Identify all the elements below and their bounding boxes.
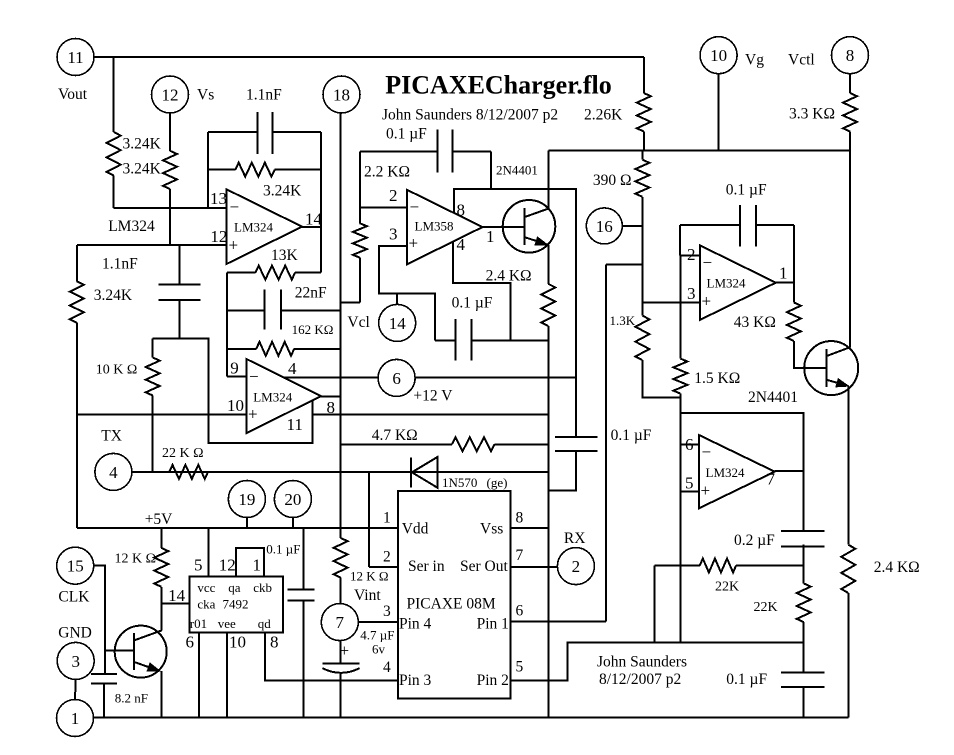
node 10 Vg [700,37,737,74]
svg-text:12: 12 [219,556,236,575]
node 2 RX [557,548,594,585]
svg-text:8/12/2007 p2: 8/12/2007 p2 [599,671,681,688]
svg-text:TX: TX [101,428,122,445]
wire pin5 rail down [679,445,681,643]
wire 22K tap [654,566,656,643]
node 16 [586,208,622,244]
svg-text:1: 1 [71,709,80,728]
svg-text:6: 6 [516,603,524,620]
svg-text:LM358: LM358 [415,219,454,234]
wire pin12 input [77,244,227,246]
svg-text:+12 V: +12 V [413,388,453,405]
svg-text:11: 11 [67,48,83,67]
wire 548 vertical to ground rail [547,340,549,717]
wire Vss pin8 [511,527,549,529]
svg-text:Vint: Vint [354,587,381,604]
wire U1B output [776,282,794,284]
svg-text:r01: r01 [190,616,207,631]
wire node14 stub [396,293,398,304]
node 4 TX [95,453,132,490]
svg-text:(ge): (ge) [487,475,508,490]
wire 642 vertical [641,226,643,316]
capacitor C5 0.1uF U1B feedback [680,224,740,226]
svg-text:+: + [409,234,419,253]
IC U3 7492 box [189,577,283,633]
resistor R5 13K [227,272,255,274]
transistor Q3 2N4401 [115,626,167,678]
wire pin3 U1B [642,302,699,304]
node 18 [323,76,360,113]
svg-text:7: 7 [767,470,776,489]
svg-text:Ser in: Ser in [408,558,445,575]
svg-text:LM324: LM324 [706,465,746,480]
capacitor C3 1.1nF [179,245,181,285]
svg-text:2N4401: 2N4401 [748,389,798,406]
resistor R17 4.7K [341,443,452,445]
wire TX line [132,471,548,473]
svg-text:1N570: 1N570 [442,475,477,490]
wire Ser-in drop [368,472,370,567]
svg-text:18: 18 [333,86,350,105]
wire Q1 emitter / 2.4K chain down to ground [547,245,549,284]
svg-text:1.5 KΩ: 1.5 KΩ [694,370,740,387]
wire +12V / pin4 line [284,376,378,378]
wire node18 vertical [340,113,342,528]
wire Q3 emitter [161,671,163,717]
svg-text:+: + [248,405,258,424]
svg-text:3.24K: 3.24K [123,160,162,177]
wire node16 to rail [622,225,642,227]
svg-text:2: 2 [572,557,581,576]
capacitor C6 0.1uF (pin4 U2 node) [455,319,457,361]
svg-text:0.1 µF: 0.1 µF [726,671,767,688]
svg-text:2N4401: 2N4401 [496,163,538,178]
svg-text:19: 19 [238,490,255,509]
wire pin10 input [77,413,247,415]
svg-text:6: 6 [392,369,401,388]
svg-text:Pin 1: Pin 1 [477,616,509,633]
resistor R10 2.4K [541,284,555,326]
svg-text:2.26K: 2.26K [584,106,623,123]
svg-text:4: 4 [288,359,297,378]
wire pin2 U2 [360,206,407,208]
svg-text:Vcl: Vcl [347,314,369,331]
svg-text:LM324: LM324 [108,218,155,235]
svg-text:8: 8 [516,510,524,527]
svg-text:−: − [702,443,712,462]
svg-text:6: 6 [186,633,195,652]
svg-text:14: 14 [389,314,407,333]
wire pin3 U2 to node 14 [379,246,435,340]
op-amp U2 LM358 triangle [407,190,483,265]
svg-text:Pin 2: Pin 2 [477,672,509,689]
svg-text:10 K Ω: 10 K Ω [96,362,138,377]
capacitor C1 1.1nF feedback [207,132,209,208]
svg-text:Vs: Vs [197,87,214,104]
node 7 Vint [321,604,358,641]
resistor R2 3.24K (Vs to pin13 node) [169,113,171,151]
capacitor C12 0.1uF bottom right [803,642,805,672]
wire Q1 collector up [547,151,549,209]
svg-text:7: 7 [336,613,345,632]
svg-text:7: 7 [516,547,524,564]
svg-text:43 KΩ: 43 KΩ [734,314,776,331]
wire SerOut pin7 to node2 [511,566,558,568]
svg-text:LM324: LM324 [253,390,293,405]
diode D1 1N570 [412,457,438,488]
svg-text:8.2 nF: 8.2 nF [115,691,148,706]
svg-text:14: 14 [168,586,186,605]
svg-text:1: 1 [486,227,495,246]
svg-text:8: 8 [457,200,466,219]
resistor R4 3.24K feedback [208,169,236,171]
wire 7492 pin6 to ground [198,633,200,718]
svg-text:LM324: LM324 [234,220,274,235]
svg-text:22nF: 22nF [295,285,327,302]
svg-text:16: 16 [596,217,613,236]
wire y414 node line [312,413,548,415]
svg-text:13: 13 [210,189,227,208]
svg-text:7492: 7492 [223,597,249,612]
svg-text:6: 6 [685,435,694,454]
svg-text:0.1 µF: 0.1 µF [611,427,652,444]
svg-text:4.7 µF: 4.7 µF [360,627,394,642]
resistor R22 22K horizontal [655,565,700,567]
svg-text:vee: vee [218,616,236,631]
wire cap to 22K junction [803,545,805,584]
node 14 Vcl [379,304,416,341]
resistor R13 390 [641,151,643,160]
svg-text:Pin 4: Pin 4 [399,616,432,633]
svg-text:2.2 KΩ: 2.2 KΩ [364,163,410,180]
svg-text:390 Ω: 390 Ω [593,172,632,189]
resistor R14 1.3K [635,316,649,361]
IC U4 PICAXE 08M box [398,491,511,699]
wire pin8 power U2 [454,189,576,377]
svg-text:12 K Ω: 12 K Ω [115,551,157,566]
transistor Q1 2N4401 [503,200,556,253]
svg-text:0.1 µF: 0.1 µF [386,125,427,142]
wire pin6 line [511,621,606,623]
wire pin6 U1D [680,444,698,446]
svg-text:qd: qd [258,616,272,631]
resistor R19 12K [160,528,162,548]
svg-text:4.7 KΩ: 4.7 KΩ [372,427,418,444]
wire pin11 loop [153,339,313,443]
capacitor C7 0.1uF (12V rail) [575,377,577,437]
resistor R9 2.2K [359,151,361,223]
resistor R18 22K [169,465,208,479]
svg-text:2: 2 [389,186,398,205]
wire U1C output pin8 [321,395,341,397]
svg-text:+: + [701,481,711,500]
wire CLK line [94,566,105,674]
svg-text:0.1 µF: 0.1 µF [266,542,300,557]
node 15 CLK [57,547,94,584]
svg-text:22K: 22K [715,580,739,595]
wire +V node rail y150 [548,150,850,152]
resistor R15 43K [793,283,795,303]
wire node7 to pin3 [358,621,398,623]
svg-text:LM324: LM324 [707,276,747,291]
capacitor C9 8.2nF [91,673,117,675]
resistor R20 12K right [340,528,342,538]
op-amp U1D LM324 triangle [699,435,775,509]
wire node19 stub [246,518,248,528]
svg-text:John Saunders: John Saunders [597,654,687,671]
svg-text:22K: 22K [754,600,778,615]
svg-text:11: 11 [287,415,303,434]
svg-text:3: 3 [71,652,80,671]
svg-text:RX: RX [564,530,586,547]
wire Vout top rail [94,56,644,58]
wire Ser-in pin2 [369,566,398,568]
node 3 GND [57,642,94,679]
svg-text:GND: GND [58,624,92,641]
wire U1A output [302,226,321,228]
svg-text:+: + [340,641,350,660]
capacitor C4 0.1uF U2 feedback [360,150,438,152]
node 19 [228,481,265,518]
svg-text:Ser Out: Ser Out [460,558,508,575]
svg-text:Vout: Vout [58,86,88,103]
svg-text:8: 8 [846,46,855,65]
op-amp U1B LM324 triangle [700,245,776,320]
capacitor C10 4.7uF electrolytic [340,641,342,664]
wire 7492 pin8 qd to PICAXE pin4 [265,633,398,681]
svg-text:3.24K: 3.24K [94,287,133,304]
node 1 [57,700,94,737]
svg-text:3.3 KΩ: 3.3 KΩ [789,105,835,122]
svg-text:−: − [249,367,259,386]
wire 7492 pin12-pin1 jumper [236,548,264,577]
node 11 Vout [57,39,94,76]
svg-text:−: − [230,198,240,217]
capacitor C2 22nF [227,310,265,312]
wire 606 vertical to PICAXE pin6 [605,264,607,621]
svg-text:10: 10 [229,633,246,652]
svg-text:2: 2 [383,548,391,565]
svg-text:8: 8 [270,633,279,652]
wire 7492 pin5 to +5V [208,528,210,577]
op-amp U1C LM324 triangle [246,359,321,433]
svg-text:2: 2 [687,245,696,264]
svg-text:3.24K: 3.24K [123,135,162,152]
wire node3 to node1 [74,679,77,699]
svg-text:+5V: +5V [145,511,173,528]
resistor R12 3.3K [849,74,851,93]
svg-text:5: 5 [194,556,203,575]
resistor R8 10K [152,339,154,358]
svg-text:−: − [703,253,713,272]
svg-text:2.4 KΩ: 2.4 KΩ [874,559,920,576]
wire pin5 U1D [680,491,698,493]
svg-text:13K: 13K [271,247,299,264]
svg-text:Vdd: Vdd [402,521,429,538]
wire pin9 input [227,376,246,378]
svg-text:10: 10 [710,46,727,65]
wire R16 to ground rail [847,593,849,717]
resistor R21 1.5K [679,255,681,358]
resistor R23 22K vertical [797,583,811,622]
wire 7492 pin10 to ground [226,633,228,718]
svg-text:4: 4 [109,463,118,482]
svg-text:12 K Ω: 12 K Ω [350,569,389,584]
svg-text:0.2 µF: 0.2 µF [734,532,775,549]
svg-text:PICAXECharger.flo: PICAXECharger.flo [385,71,612,100]
svg-text:20: 20 [284,490,301,509]
wire pin5 path [511,642,655,680]
node 12 Vs [152,76,189,113]
wire 642 to 606 branch [606,263,643,265]
wire feedback left rail [226,273,228,377]
svg-text:qa: qa [228,580,241,595]
wire U1D output [775,470,804,472]
svg-text:9: 9 [230,359,239,378]
svg-text:1.1nF: 1.1nF [102,255,138,272]
svg-text:1: 1 [779,264,788,283]
wire Q2 emitter down [847,386,849,545]
wire +5V rail [77,527,398,529]
svg-text:22 K Ω: 22 K Ω [162,446,204,461]
wire U2 output to Q1 base [483,226,524,228]
resistor R7 3.24K (left) [76,245,78,281]
svg-text:12: 12 [162,86,179,105]
svg-text:−: − [410,198,420,217]
svg-text:1.3K: 1.3K [610,313,636,328]
svg-text:Vctl: Vctl [788,52,815,69]
wire ground rail [93,716,848,718]
svg-text:Pin 3: Pin 3 [399,672,432,689]
svg-text:cka: cka [197,597,215,612]
svg-text:Vss: Vss [480,521,503,538]
wire y642 node line [568,641,804,643]
transistor Q2 2N4401 [804,341,858,395]
node 20 [274,481,311,518]
svg-text:ckb: ckb [253,580,272,595]
svg-text:1.1nF: 1.1nF [246,86,282,103]
capacitor C8 0.1uF (7492) [302,528,304,590]
wire node10 stub [718,74,720,151]
resistor R1 3.24K (Vout to pin13) [113,57,115,132]
svg-text:+: + [229,236,239,255]
wire 850 vertical to Q2 collector [849,151,851,348]
wire cka line [161,602,189,604]
wire pin4 U2 [453,242,511,341]
wire node20 stub [292,518,294,528]
resistor R11 2.26K [643,57,645,93]
svg-text:4: 4 [457,235,466,254]
svg-text:vcc: vcc [197,580,215,595]
svg-text:0.1 µF: 0.1 µF [726,182,767,199]
wire U1D feedback box [680,413,803,471]
resistor R6 162K [227,348,256,350]
svg-text:3: 3 [687,284,696,303]
svg-text:0.1 µF: 0.1 µF [452,295,493,312]
svg-text:+: + [702,292,712,311]
svg-text:2.4 KΩ: 2.4 KΩ [486,268,532,285]
node 8 Vctl [832,37,869,74]
svg-text:1: 1 [253,556,262,575]
capacitor C11 0.2uF [803,471,805,531]
svg-text:PICAXE 08M: PICAXE 08M [407,596,496,613]
svg-text:5: 5 [516,659,524,676]
wire Q3 collector [161,603,163,630]
svg-text:3: 3 [389,224,398,243]
svg-text:1: 1 [383,510,391,527]
svg-text:6v: 6v [372,641,386,656]
svg-text:12: 12 [210,227,227,246]
op-amp U1A LM324 triangle [227,189,302,264]
svg-text:4: 4 [383,659,391,676]
svg-text:3.24K: 3.24K [263,182,302,199]
svg-text:5: 5 [685,474,694,493]
svg-text:John Saunders 8/12/2007 p2: John Saunders 8/12/2007 p2 [382,107,558,124]
svg-text:CLK: CLK [58,589,90,606]
svg-text:162 KΩ: 162 KΩ [292,322,334,337]
node 6 +12V [378,359,415,396]
wire pin2 U1B [680,254,700,256]
svg-text:14: 14 [305,209,323,228]
svg-text:15: 15 [67,557,84,576]
wire pin13 input [114,207,227,209]
svg-text:3: 3 [383,603,391,620]
resistor R16 2.4K right [841,545,855,593]
svg-text:Vg: Vg [745,52,764,69]
svg-text:10: 10 [227,396,244,415]
